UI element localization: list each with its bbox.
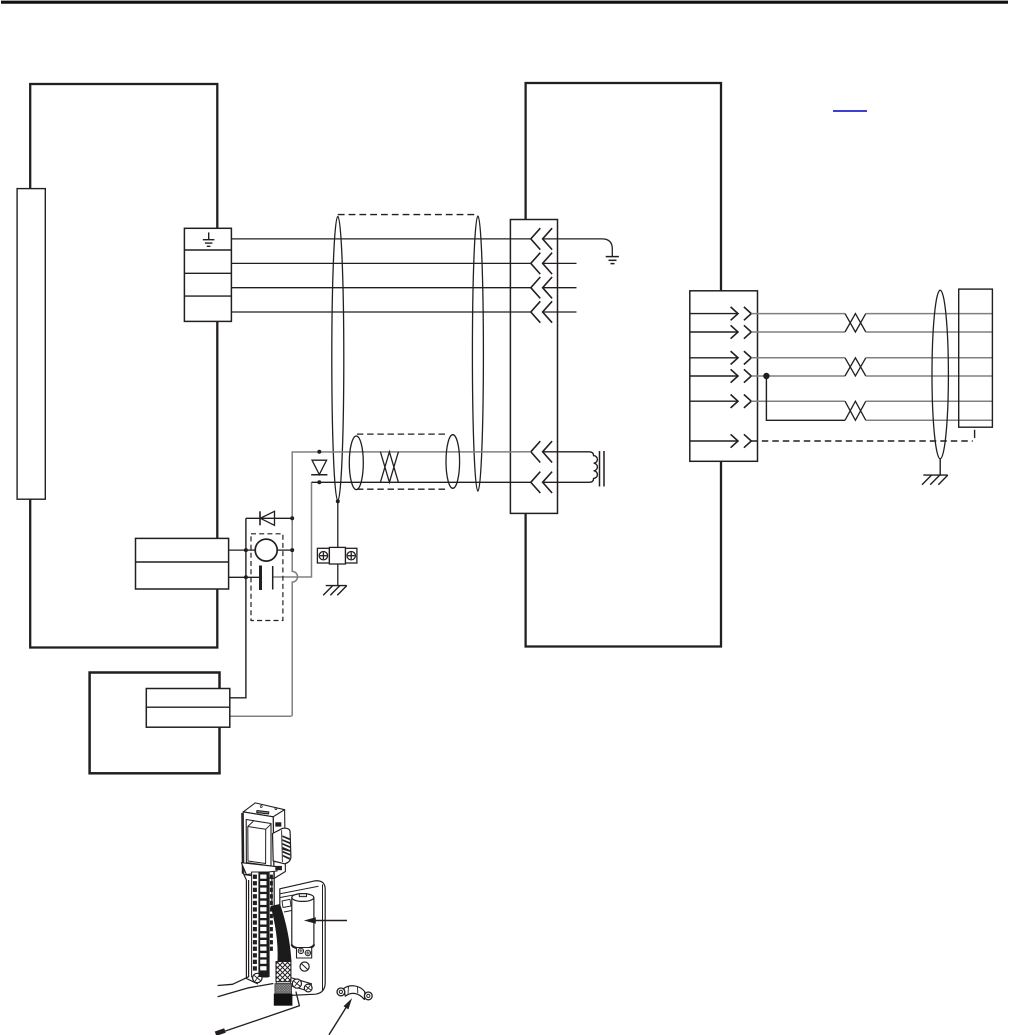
chevrons U2 row3: [731, 351, 752, 364]
D-sub connector: [273, 828, 291, 864]
chevrons U1 row2: [531, 253, 552, 274]
wire ch2 +: [231, 287, 530, 289]
node cap-left: [244, 575, 248, 579]
valve actuator dashed box: [251, 534, 283, 621]
shield ellipse small left: [349, 436, 363, 490]
motor left lead: [246, 549, 255, 551]
terminal clamps column: [260, 875, 266, 971]
device ground wire: [939, 459, 941, 475]
arrow to clamp: [329, 998, 352, 1035]
connector nub top: [275, 822, 281, 826]
node motor-left: [244, 548, 248, 552]
wire ch1 +: [231, 238, 530, 240]
flyback diode D1 wire: [246, 517, 292, 519]
module neck: [244, 872, 274, 984]
device terminal box: [959, 289, 993, 427]
stub row2: [543, 262, 577, 264]
RTB door: [280, 881, 325, 996]
mid box row1 wire: [229, 549, 246, 551]
header rule: [1, 1, 1008, 4]
right cable wire2: [751, 331, 845, 333]
lower pair top wire (gray): [292, 452, 531, 717]
output module box: [136, 538, 229, 589]
shield drain dot: [336, 499, 340, 503]
lower cable jacket dashed: [357, 434, 446, 489]
node motor-right: [290, 548, 294, 552]
U2 row wires left: [690, 314, 738, 441]
right cable wire3: [751, 357, 845, 359]
chevrons U2 row1: [731, 307, 752, 320]
module collar ledge: [241, 863, 277, 875]
power terminal box: [146, 689, 230, 728]
terminal strip dark body: [259, 872, 270, 978]
right chassis box: [526, 83, 721, 647]
chevrons U1 row6: [531, 472, 552, 493]
cable jacket dashed (upper): [338, 214, 478, 216]
module label panel: [246, 820, 271, 867]
chevrons U2 row2: [731, 325, 752, 338]
zener diode D2 (down): [311, 450, 327, 485]
capacitor left lead: [229, 576, 259, 578]
right cable wire1: [751, 313, 845, 315]
chevrons U1 row3: [531, 277, 552, 298]
module head front face: [243, 812, 274, 879]
strain screw 2: [304, 984, 312, 992]
motor right lead: [277, 549, 292, 551]
strain screw 1: [292, 979, 301, 988]
module connector box U1: [510, 220, 557, 514]
right cable wires to device: [866, 314, 993, 421]
chevrons U1 row1: [531, 228, 552, 249]
shield ellipse right: [472, 216, 483, 491]
wire bottom row2 riser (gray): [230, 715, 292, 717]
module top cap: [243, 803, 284, 817]
chassis ground below lug: [323, 586, 347, 596]
chevrons U2 row5: [731, 395, 752, 408]
chassis ground below device: [922, 475, 948, 485]
chevrons U2 row4: [731, 369, 752, 382]
chevrons U2 row6: [731, 434, 752, 447]
chevrons U1 row5: [531, 441, 552, 462]
cable mesh band: [275, 984, 292, 994]
drain tick: [974, 430, 976, 438]
capacitor C1: [261, 566, 273, 591]
cable clamp part: [337, 986, 372, 1000]
cable hatched sleeve: [276, 962, 291, 982]
wire row1 to ground: [543, 239, 613, 256]
stub row3: [543, 287, 577, 289]
shield drain dashed wire: [751, 440, 973, 442]
RTB mounting screw left: [253, 973, 262, 982]
remote connector box U2: [690, 291, 758, 462]
field wire 3: [219, 992, 300, 1034]
transformer T1 winding: [543, 452, 598, 483]
terminal slots column: [270, 875, 273, 951]
right cable wire4: [751, 375, 845, 377]
arrow to door: [304, 917, 347, 923]
hyperlink underline: [833, 110, 867, 112]
motor M: [255, 539, 277, 561]
shield drain wire: [337, 501, 339, 548]
wire ch2 -: [231, 311, 530, 313]
twist pair C: [845, 401, 866, 420]
grounding lug: [317, 547, 357, 564]
shield ellipse small right: [446, 435, 460, 489]
field wire 1: [218, 977, 249, 986]
field wire 2: [218, 984, 274, 997]
chevrons U1 row4: [531, 301, 552, 322]
backplane connector (thin rect): [17, 189, 45, 500]
common branch wire: [766, 376, 845, 420]
flyback diode D1: [260, 511, 275, 525]
twist lower pair: [380, 452, 398, 483]
right cable wire5: [751, 400, 845, 402]
stub row4: [543, 311, 577, 313]
strain relief plate: [289, 978, 312, 992]
wire ch1 -: [231, 262, 530, 264]
transformer T1 core: [600, 451, 605, 487]
terminal block TB1 (4 rows): [184, 228, 231, 321]
cable end block: [274, 994, 293, 1006]
terminal screw block: [297, 948, 312, 972]
lug to ground wire: [337, 564, 339, 585]
terminal strip: [252, 872, 268, 977]
wire bottom row1 riser: [230, 518, 246, 698]
twist pair A: [845, 314, 866, 332]
earth ground right of U1: [606, 257, 619, 264]
earth ground in TB1 top cell: [203, 232, 215, 246]
wire 3 end cap: [215, 1028, 226, 1035]
node flyback-gray: [290, 516, 294, 520]
lower pair return (gray): [274, 482, 312, 577]
wire spool cylinder: [292, 894, 314, 949]
node common branch: [763, 373, 769, 379]
lower pair bottom wire: [312, 481, 531, 483]
terminal screws column: [253, 875, 257, 971]
power supply box: [90, 673, 220, 774]
left chassis box: [30, 84, 217, 648]
connector nub bottom: [275, 866, 282, 870]
twist pair B: [845, 358, 866, 376]
device shield ellipse: [932, 290, 948, 459]
cable white ring: [276, 982, 290, 984]
module head shadow edge: [241, 813, 244, 874]
shield ellipse left: [332, 216, 344, 500]
cable black band: [271, 904, 292, 962]
module head right side: [273, 810, 285, 879]
